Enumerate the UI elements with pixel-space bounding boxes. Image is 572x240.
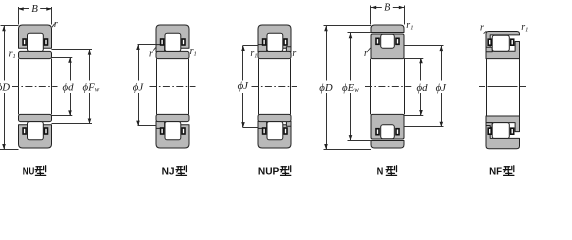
bearing NJ cage (upper right) xyxy=(182,39,185,45)
bearing NU cage (upper right) xyxy=(45,39,48,45)
dimension phid line (NU) xyxy=(68,58,72,116)
svg-text:B: B xyxy=(31,3,38,15)
bearing NUP cage (lower right) xyxy=(284,128,287,134)
dimension phiD extension bottom (NU) xyxy=(0,149,19,151)
bearing NF inner ring left flange (lower) xyxy=(486,123,492,128)
dimension phid extension top (NU) xyxy=(52,57,73,59)
dimension phiJ line (NJ) xyxy=(136,45,140,126)
bearing NF silhouette edge left xyxy=(486,59,488,116)
bearing NUP roller (lower) xyxy=(267,122,283,140)
dimension phiFw extension top (NU) xyxy=(52,49,93,51)
bearing NUP roller (upper) xyxy=(267,33,283,51)
label phiJ (NJ) xyxy=(133,82,145,94)
label B (N) xyxy=(384,2,390,13)
bearing N centerline xyxy=(365,86,411,88)
bearing NJ cage (lower right) xyxy=(182,128,185,134)
dimension phiD extension top (NU) xyxy=(1,25,19,27)
svg-text:r: r xyxy=(292,48,296,59)
bearing NF cage (upper left) xyxy=(488,39,491,45)
dimension phid line (N) xyxy=(419,58,423,115)
dimension phiD line (NU) xyxy=(2,26,6,149)
bearing NF cage (lower right) xyxy=(511,128,514,134)
bearing NUP silhouette edge right xyxy=(290,59,292,115)
label r (NJ) xyxy=(149,48,153,59)
svg-text:ϕD: ϕD xyxy=(319,82,333,94)
label phiD (NU) xyxy=(0,81,10,93)
dimension phiJ line (NUP) xyxy=(241,46,245,128)
label N-type xyxy=(377,166,397,178)
bearing NJ roller (lower) xyxy=(165,122,181,140)
bearing NUP outer ring (upper half) xyxy=(258,25,291,48)
label phiD (N) xyxy=(319,82,333,94)
label B (NU) xyxy=(31,3,38,15)
bearing NF inner ring (upper half, right flange) xyxy=(486,42,520,59)
bearing NJ inner ring (upper half) xyxy=(156,51,189,58)
bearing NF roller (upper) xyxy=(492,35,509,51)
bearing N roller (upper) xyxy=(381,34,395,48)
label r (NF) xyxy=(480,23,484,34)
dimension phiJ line (N) xyxy=(440,46,444,127)
svg-text:NF: NF xyxy=(489,166,503,178)
svg-text:ϕD: ϕD xyxy=(0,81,10,93)
bearing N inner ring (upper half, double flanged) xyxy=(371,34,404,59)
dimension phiJ extension top (NJ) xyxy=(138,44,157,46)
fillet leader r (NU) xyxy=(52,24,55,28)
bearing NU roller (lower) xyxy=(28,122,44,140)
dimension phiJ extension bottom (NUP) xyxy=(243,127,259,129)
bearing NU silhouette edge right xyxy=(51,59,53,115)
bearing NU inner ring (upper half) xyxy=(19,51,52,58)
fillet leader r (NJ) xyxy=(153,47,156,50)
bearing NUP centerline xyxy=(252,86,298,88)
bearing N outer ring (lower half, plain) xyxy=(371,141,404,149)
dimension phiEw extension top (N) xyxy=(348,32,372,34)
bearing NF inner ring (lower half, right flange) xyxy=(486,116,520,132)
dimension phiD extension top (N) xyxy=(324,25,372,27)
label NU-type xyxy=(23,166,46,178)
bearing NF cage (upper right) xyxy=(511,39,514,45)
bearing NJ inner ring left flange (lower) xyxy=(156,121,165,128)
label r (NU) xyxy=(54,19,58,30)
bearing N inner ring (lower half, double flanged) xyxy=(371,114,404,139)
bearing NJ roller (upper) xyxy=(165,33,181,51)
bearing NJ silhouette edge left xyxy=(156,59,158,115)
dimension phiFw extension bottom (NU) xyxy=(52,123,93,125)
svg-text:ϕd: ϕd xyxy=(63,81,75,93)
bearing N silhouette edge left xyxy=(370,59,372,115)
bearing NJ inner ring (lower half) xyxy=(156,114,189,121)
svg-text:NJ: NJ xyxy=(162,166,175,178)
bearing N cage (lower left) xyxy=(376,129,379,135)
bearing NUP silhouette edge left xyxy=(258,59,260,115)
label r (N) xyxy=(364,48,368,59)
dimension phiEw extension bottom (N) xyxy=(348,140,372,142)
dimension phiEw line (N) xyxy=(349,33,353,140)
label r1 (NF) xyxy=(521,22,528,34)
bearing NJ outer ring (lower half) xyxy=(156,125,189,148)
bearing NJ silhouette edge right xyxy=(188,59,190,115)
bearing NUP loose rib (upper right) xyxy=(286,47,291,52)
dimension phiD extension bottom (N) xyxy=(324,149,372,151)
label phiJ (NUP) xyxy=(238,80,250,92)
bearing NF outer ring (lower half, one flange left) xyxy=(486,126,520,149)
label NF-type xyxy=(489,166,514,178)
dimension phid extension top (N) xyxy=(404,58,423,60)
label phid (N) xyxy=(417,82,429,94)
bearing NU cage (upper left) xyxy=(23,39,26,45)
label phiEw (N) xyxy=(342,82,359,94)
svg-text:NU: NU xyxy=(23,166,35,178)
bearing NUP inner ring left flange (upper) xyxy=(258,45,267,52)
dimension phid extension bottom (NU) xyxy=(52,115,73,117)
dimension phiD line (N) xyxy=(324,26,328,149)
svg-text:r: r xyxy=(480,23,484,34)
bearing NF outer ring (upper half, one flange left) xyxy=(486,32,520,49)
bearing NUP inner ring (lower half) xyxy=(258,114,291,121)
svg-text:r: r xyxy=(54,19,58,30)
bearing N cage (upper right) xyxy=(396,38,399,44)
dimension phid extension bottom (N) xyxy=(404,115,423,117)
bearing NU cage (lower left) xyxy=(23,128,26,134)
dimension B extension lines (N) xyxy=(371,6,405,25)
svg-text:r: r xyxy=(364,48,368,59)
bearing NJ outer ring (upper half) xyxy=(156,25,189,48)
label r1 (N) xyxy=(406,20,413,32)
bearing NU outer ring (lower half) xyxy=(19,125,52,148)
dimension phiJ extension top (NUP) xyxy=(243,45,259,47)
dimension phiJ extension bottom (N) xyxy=(404,126,444,128)
bearing NF silhouette edge right xyxy=(519,59,521,116)
bearing NF inner ring left flange (upper) xyxy=(486,47,492,52)
bearing N cage (lower right) xyxy=(396,129,399,135)
svg-text:ϕJ: ϕJ xyxy=(238,80,250,92)
bearing NUP inner ring left flange (lower) xyxy=(258,121,267,128)
bearing NU centerline xyxy=(12,86,58,88)
label r1 (NJ) xyxy=(190,46,197,58)
bearing NU inner ring (lower half) xyxy=(19,114,52,121)
dimension B extension lines (NU) xyxy=(19,7,52,25)
bearing NF centerline xyxy=(479,86,527,88)
label r1 (NU) xyxy=(9,49,16,61)
bearing NJ cage (lower left) xyxy=(161,128,164,134)
label phid (NU) xyxy=(63,81,75,93)
dimension B line+arrows (NU) xyxy=(19,7,52,11)
bearing NUP cage (upper left) xyxy=(263,39,266,45)
bearing NJ cage (upper left) xyxy=(161,39,164,45)
label NUP-type xyxy=(258,166,291,178)
label NJ-type xyxy=(162,166,187,178)
dimension phiJ extension bottom (NJ) xyxy=(138,125,157,127)
white background xyxy=(0,0,572,182)
bearing N silhouette edge right xyxy=(404,59,406,115)
bearing NJ centerline xyxy=(150,86,196,88)
bearing NU roller (upper) xyxy=(28,33,44,51)
svg-text:ϕJ: ϕJ xyxy=(436,82,448,94)
bearing NUP cage (upper right) xyxy=(284,39,287,45)
bearing NUP outer ring (lower half) xyxy=(258,125,291,148)
bearing N outer ring (upper half, plain) xyxy=(371,25,404,33)
fillet leader r (N) xyxy=(368,48,371,51)
svg-text:B: B xyxy=(384,2,390,13)
bearing NU outer ring (upper half) xyxy=(19,25,52,48)
label phiFw (NU) xyxy=(83,81,100,93)
dimension phiJ extension top (N) xyxy=(404,45,444,47)
bearing NF roller (lower) xyxy=(492,123,509,139)
svg-text:ϕd: ϕd xyxy=(417,82,429,94)
bearing NJ inner ring left flange (upper) xyxy=(156,45,165,52)
svg-text:r: r xyxy=(149,48,153,59)
bearing N roller (lower) xyxy=(381,125,395,139)
label r1 (NUP) xyxy=(250,48,257,60)
svg-text:ϕJ: ϕJ xyxy=(133,82,145,94)
label phiJ (N) xyxy=(436,82,448,94)
bearing NU cage (lower right) xyxy=(45,128,48,134)
bearing NUP loose rib (lower right) xyxy=(286,121,291,126)
dimension phiFw line (NU) xyxy=(88,49,92,123)
bearing NUP cage (lower left) xyxy=(263,128,266,134)
bearing N cage (upper left) xyxy=(376,38,379,44)
bearing NF cage (lower left) xyxy=(488,128,491,134)
svg-text:NUP: NUP xyxy=(258,166,279,178)
label r (NUP) xyxy=(292,48,296,59)
svg-text:N: N xyxy=(377,166,384,178)
bearing NU silhouette edge left xyxy=(18,59,20,115)
bearing NUP inner ring (upper half) xyxy=(258,51,291,58)
dimension B line+arrows (N) xyxy=(371,6,404,10)
fillet leader r (NF) xyxy=(484,31,487,33)
